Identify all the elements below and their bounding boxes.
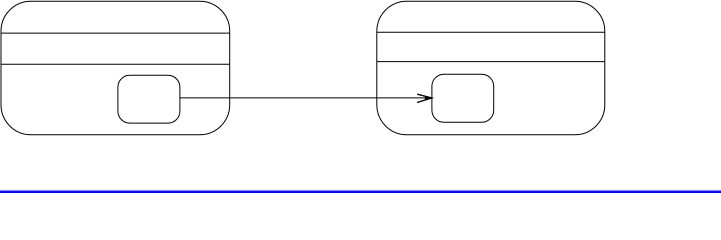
node A (small rounded rect inside left frame) (118, 75, 180, 123)
arrowhead (417, 94, 432, 102)
wire divider line 1 of S1 (1, 32, 230, 34)
wire arrow shaft from node A to node B (180, 97, 432, 99)
wire divider line 1 of S2 (377, 31, 605, 33)
state frame S2 (right rounded box) (377, 1, 605, 135)
node B (small rounded rect inside right frame) (432, 74, 494, 122)
wire divider line 2 of S1 (1, 63, 230, 65)
wire divider line 2 of S2 (377, 61, 605, 63)
state frame S1 (left rounded box) (1, 1, 230, 135)
